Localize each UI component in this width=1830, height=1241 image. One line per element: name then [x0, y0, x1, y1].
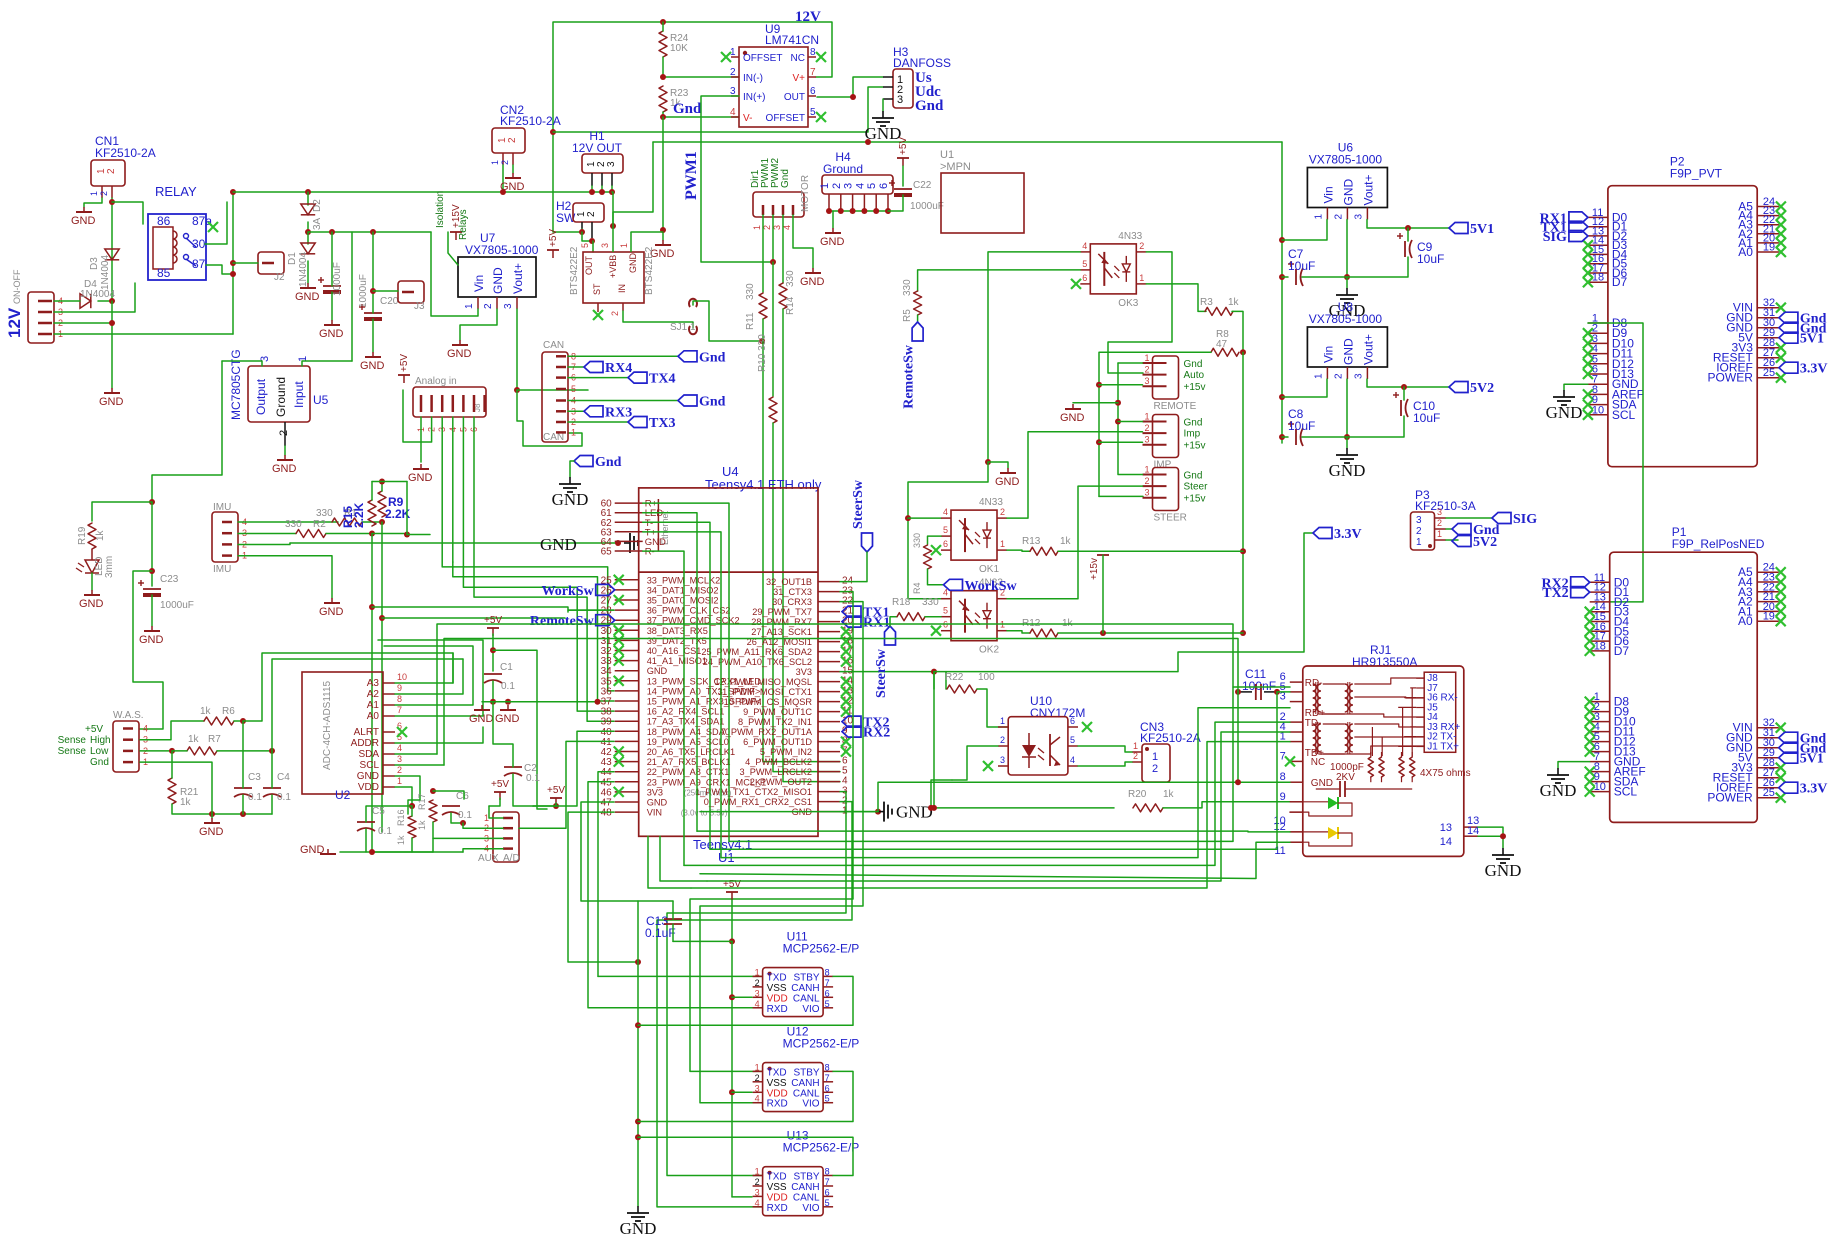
- wire row45 crx1: [588, 782, 762, 1008]
- wire WAS feed: [133, 571, 163, 729]
- svg-text:2: 2: [99, 191, 109, 196]
- svg-text:SIG: SIG: [1543, 230, 1567, 245]
- svg-text:CANL: CANL: [793, 1088, 820, 1099]
- junction H4 pin2: [838, 208, 844, 214]
- wire OK3 p5: [918, 270, 1081, 291]
- svg-text:1N4004: 1N4004: [100, 255, 111, 290]
- wire R8 left: [1099, 352, 1211, 496]
- svg-text:GND: GND: [1341, 179, 1355, 206]
- svg-text:7: 7: [810, 67, 816, 78]
- svg-text:OFFSET: OFFSET: [766, 113, 805, 124]
- capacitor C5 0.1: [357, 806, 392, 837]
- svg-text:R10 330: R10 330: [757, 334, 768, 372]
- svg-text:3mm: 3mm: [104, 556, 115, 578]
- wire OUT stub up: [592, 241, 594, 252]
- wire U5 input up: [302, 361, 352, 366]
- svg-text:KF2510-2A: KF2510-2A: [500, 114, 561, 128]
- svg-text:10uF: 10uF: [1288, 419, 1315, 433]
- junction R12 node: [1240, 630, 1246, 636]
- svg-text:RXD: RXD: [767, 1203, 788, 1214]
- wire CAN p3: [568, 410, 584, 412]
- svg-text:10K: 10K: [670, 43, 688, 54]
- svg-text:4: 4: [755, 1094, 760, 1104]
- wire u10 p2: [952, 746, 998, 780]
- junction C7 left: [1279, 274, 1285, 280]
- svg-text:1: 1: [490, 160, 500, 165]
- wire u11 vdd: [732, 996, 752, 998]
- ground earth U8: [1329, 448, 1366, 480]
- wire U5 output up: [222, 361, 262, 366]
- net label PWM1: [683, 151, 700, 200]
- net flag Gnd P2b: [1779, 322, 1827, 337]
- svg-text:5V1: 5V1: [1800, 752, 1824, 767]
- ground earth P1: [1540, 768, 1577, 800]
- svg-text:Analog in: Analog in: [415, 376, 457, 387]
- svg-text:6_PWM_OUT1D: 6_PWM_OUT1D: [743, 737, 812, 747]
- wire sda vert: [372, 534, 463, 853]
- wire r12 out: [1058, 632, 1243, 634]
- ground earth side teensy: [540, 533, 638, 554]
- svg-text:IN(-): IN(-): [743, 73, 763, 84]
- wire u13 stby: [638, 1137, 853, 1175]
- no-connect X teensy right: [841, 627, 851, 757]
- svg-text:VIN: VIN: [647, 808, 662, 818]
- wire C10 dn: [1347, 416, 1404, 437]
- wire +12raw rail: [308, 231, 431, 233]
- wire u10 p4 cn3: [1078, 762, 1132, 766]
- svg-text:GND: GND: [1485, 861, 1522, 880]
- ground GND below LED: [79, 590, 104, 610]
- wire U6 gnd dn: [1346, 277, 1348, 288]
- wire crx2 u13: [657, 802, 852, 1207]
- capacitor C3 0.1: [234, 772, 262, 803]
- svg-text:3: 3: [1437, 507, 1442, 517]
- wire rail sda long: [407, 534, 430, 536]
- svg-text:2: 2: [730, 67, 736, 78]
- wire relay 87 out: [206, 265, 233, 274]
- svg-text:R6: R6: [222, 706, 235, 717]
- IC BTS422E2 high-side switch: [569, 226, 655, 316]
- svg-text:1000uF: 1000uF: [910, 201, 944, 212]
- svg-text:GND: GND: [491, 267, 505, 294]
- junction D2 bottom: [305, 229, 311, 235]
- wire u10 p5 cn3: [1078, 746, 1132, 752]
- no-connect X P1 power: [1776, 723, 1786, 803]
- svg-text:AUX: AUX: [478, 853, 499, 864]
- svg-text:A/D: A/D: [503, 853, 520, 864]
- svg-text:Gnd: Gnd: [1184, 359, 1203, 370]
- svg-text:TX4: TX4: [649, 372, 675, 387]
- resistor R7 1k: [187, 734, 221, 755]
- connector IMP: [1143, 412, 1206, 471]
- svg-text:2: 2: [755, 1073, 760, 1083]
- pin rows teensy left: [601, 575, 767, 818]
- ground GND analog: [408, 464, 433, 484]
- svg-text:R14: R14: [785, 296, 796, 315]
- ground GND aux: [300, 844, 336, 856]
- svg-text:A0: A0: [367, 711, 380, 722]
- no-connect X ADC ALRT: [397, 727, 407, 737]
- wire U6 vout: [1367, 220, 1449, 229]
- svg-text:10uF: 10uF: [1417, 252, 1444, 266]
- svg-text:5V1: 5V1: [1470, 222, 1494, 237]
- wire eth LED: [643, 513, 697, 831]
- svg-text:1: 1: [1152, 751, 1158, 763]
- svg-text:1: 1: [1437, 529, 1442, 539]
- svg-text:3: 3: [606, 161, 617, 167]
- svg-text:85: 85: [157, 266, 171, 280]
- svg-text:1: 1: [755, 967, 760, 977]
- svg-text:GND: GND: [199, 826, 224, 838]
- wire analog pin3: [442, 417, 614, 691]
- svg-text:Gnd: Gnd: [915, 98, 944, 114]
- power +15V isolation: [450, 204, 462, 240]
- svg-text:2: 2: [586, 211, 597, 217]
- svg-text:RemoteSw: RemoteSw: [530, 614, 595, 629]
- wire 3v3 down: [933, 672, 935, 689]
- wire P2 gnd: [1564, 384, 1588, 390]
- svg-text:U5: U5: [313, 393, 329, 407]
- svg-text:GND: GND: [300, 844, 325, 856]
- wire row40: [533, 731, 614, 806]
- wire bund b: [660, 836, 707, 881]
- svg-text:1: 1: [1133, 741, 1138, 751]
- wire H4 to GND: [832, 211, 834, 228]
- connector REMOTE: [1143, 353, 1206, 412]
- svg-text:GND: GND: [896, 803, 933, 822]
- junction U8 vin: [1279, 394, 1285, 400]
- svg-text:8: 8: [1280, 771, 1286, 783]
- wire isolation link: [448, 232, 458, 265]
- svg-text:GND: GND: [552, 490, 589, 509]
- pin rows P1 D0-D7: [1590, 572, 1630, 658]
- svg-text:+15v: +15v: [1184, 494, 1206, 505]
- wire rd rail2: [444, 639, 1238, 766]
- svg-text:R16: R16: [396, 809, 406, 826]
- net flag RemoteSw teensy: [530, 614, 615, 629]
- pin rows P1 A5-A0: [1738, 562, 1786, 629]
- svg-text:8: 8: [825, 1167, 830, 1177]
- svg-text:+15v: +15v: [1089, 558, 1100, 580]
- wire gnd stub: [211, 814, 213, 818]
- svg-text:1: 1: [755, 1167, 760, 1177]
- wire 12V pin4 to D4: [54, 300, 80, 302]
- svg-text:A3: A3: [367, 678, 380, 689]
- wire CN2 pin1 to rail: [502, 165, 504, 192]
- capacitor C22 1000uF: [889, 180, 944, 212]
- junction gnd2: [505, 699, 511, 705]
- net flag 3.3V main: [1313, 527, 1362, 542]
- no-connect X teensy left: [614, 575, 624, 797]
- svg-text:NC: NC: [791, 53, 805, 64]
- wire CAN pin5 wire: [517, 389, 588, 391]
- svg-text:Teensy4.1 ETH only: Teensy4.1 ETH only: [705, 477, 822, 492]
- wire bundle r5: [684, 722, 1290, 865]
- LED 3mm: [76, 549, 115, 578]
- wire 12V pin2: [54, 322, 112, 324]
- svg-text:MCP2562-E/P: MCP2562-E/P: [783, 1037, 860, 1051]
- junction u11 stby: [635, 1022, 641, 1028]
- junction R16 top: [409, 803, 415, 809]
- svg-text:7: 7: [825, 1177, 830, 1187]
- wire r20 out: [1163, 802, 1290, 808]
- label Isolation: [435, 191, 446, 228]
- LED green RJ1: [1290, 797, 1352, 816]
- svg-text:GND: GND: [272, 463, 297, 475]
- diode D4 1N4004: [80, 279, 115, 308]
- svg-text:VIO: VIO: [802, 1203, 819, 1214]
- svg-text:RXD: RXD: [767, 1099, 788, 1110]
- relay RELAY: [148, 184, 212, 280]
- wire gnd vertical: [1118, 363, 1143, 475]
- wire rail to C20: [372, 232, 374, 313]
- svg-text:SCL: SCL: [1612, 408, 1636, 422]
- svg-text:Output: Output: [254, 378, 268, 415]
- capacitor C23 1000uF: [138, 574, 194, 611]
- ground earth P2: [1546, 390, 1583, 422]
- net flag 5V2 U8: [1449, 381, 1494, 396]
- wire steer p3: [1099, 495, 1143, 497]
- svg-text:+15v: +15v: [1184, 382, 1206, 393]
- ground GND below D1: [295, 283, 320, 303]
- pin stubs RJ1 left: [1274, 671, 1303, 857]
- svg-text:1000uF: 1000uF: [358, 274, 369, 308]
- wire crx3 u12: [700, 602, 863, 1103]
- svg-text:2: 2: [483, 303, 494, 309]
- wire r18 ok2: [925, 616, 941, 618]
- svg-text:C23: C23: [160, 574, 179, 585]
- connector IMU: [212, 502, 247, 575]
- wire H1 p2 drop: [601, 186, 603, 192]
- svg-text:17_A3_TX4_SDA1: 17_A3_TX4_SDA1: [647, 717, 725, 727]
- pin rows P1 D8-SCL: [1585, 691, 1646, 799]
- svg-text:41_A1_MISO1: 41_A1_MISO1: [647, 656, 707, 666]
- ground GND at CN1: [71, 207, 96, 227]
- svg-text:1: 1: [752, 225, 762, 230]
- junction CN1 pin2: [109, 199, 115, 205]
- wire aux p3: [433, 837, 503, 839]
- wire ctx2 u13: [667, 792, 846, 1176]
- wire U8 gnd: [1346, 379, 1348, 437]
- svg-text:3.3V: 3.3V: [1800, 362, 1828, 377]
- wire C8 right: [1302, 436, 1347, 438]
- wire D2 to node: [307, 222, 309, 232]
- resistor R19 1k: [77, 523, 106, 549]
- wire C23 gnd: [151, 595, 153, 626]
- svg-text:2.2K: 2.2K: [352, 502, 366, 528]
- wire SDA row: [395, 753, 437, 755]
- wire C7 right: [1302, 276, 1347, 278]
- svg-text:A2: A2: [367, 689, 380, 700]
- junction ok1 p4: [905, 515, 911, 521]
- wire R2 to R15: [326, 533, 372, 535]
- junction rj1 gnd: [1500, 833, 1506, 839]
- svg-text:0.1: 0.1: [277, 792, 291, 803]
- svg-text:7_PWM_RX2_OUT1A: 7_PWM_RX2_OUT1A: [721, 727, 813, 737]
- junction H4 pin3: [850, 208, 856, 214]
- svg-text:D2: D2: [312, 199, 323, 212]
- svg-text:C3: C3: [248, 772, 261, 783]
- wire MotGnd down: [793, 215, 813, 268]
- svg-text:R20: R20: [1128, 789, 1147, 800]
- wire A2 up: [395, 659, 463, 694]
- ground GND motor: [800, 268, 825, 288]
- net label Gnd at U9: [673, 101, 702, 117]
- wire CN1 pin2 down: [111, 198, 113, 301]
- svg-text:2: 2: [1000, 735, 1005, 745]
- svg-text:2: 2: [278, 430, 290, 436]
- wire H2 short: [582, 232, 592, 241]
- LED yellow RJ1: [1290, 827, 1352, 846]
- svg-text:38_DAT3_RX5: 38_DAT3_RX5: [647, 626, 708, 636]
- wire sda rail: [372, 607, 614, 610]
- regulator U6 VX7805-1000: [1307, 141, 1387, 220]
- junction H4 pin1: [826, 208, 832, 214]
- wire gnd vert remote: [1118, 362, 1143, 364]
- junction c11 l: [1235, 689, 1241, 695]
- svg-text:3: 3: [503, 303, 514, 309]
- net flag Gnd mid: [574, 455, 622, 470]
- net flag SteerSw opto: [874, 626, 896, 698]
- resistor R15 2.2K: [341, 500, 376, 528]
- svg-text:6: 6: [825, 1083, 830, 1093]
- svg-text:11_PWM_MOSI_CTX1: 11_PWM_MOSI_CTX1: [718, 687, 812, 697]
- junction OUT-Us: [850, 94, 856, 100]
- svg-text:W.A.S.: W.A.S.: [113, 710, 144, 721]
- wire analog pin6: [474, 417, 614, 721]
- connector J2: [258, 252, 285, 283]
- junction D2 top: [305, 189, 311, 195]
- svg-text:GND: GND: [495, 713, 520, 725]
- svg-text:>MPN: >MPN: [940, 161, 971, 173]
- connector block J1-J8: [1416, 672, 1460, 752]
- svg-text:RemoteSw: RemoteSw: [902, 344, 917, 409]
- junction C4 top: [269, 748, 275, 754]
- junction c5gnd: [369, 849, 375, 855]
- wire U8 gnd dn: [1346, 437, 1348, 448]
- svg-text:6: 6: [825, 1187, 830, 1197]
- svg-text:39_DAT2_TX5: 39_DAT2_TX5: [647, 636, 707, 646]
- svg-text:TXD: TXD: [767, 1172, 787, 1183]
- svg-text:RX4: RX4: [605, 361, 632, 376]
- svg-text:8: 8: [397, 694, 402, 704]
- svg-text:Gnd: Gnd: [1184, 418, 1203, 429]
- junction H4 pin4: [861, 208, 867, 214]
- IC U4 Teensy4.1: [639, 464, 822, 865]
- wire R21 top: [171, 751, 173, 778]
- wire WAS p1 gnd: [140, 762, 212, 814]
- svg-text:Ground: Ground: [823, 162, 863, 176]
- wire teensy gnd: [840, 811, 878, 813]
- ground GND c1a: [469, 705, 494, 725]
- svg-text:OFFSET: OFFSET: [743, 53, 782, 64]
- svg-text:2: 2: [1000, 507, 1005, 517]
- wire WAS p3: [140, 721, 204, 740]
- svg-text:6: 6: [878, 183, 890, 189]
- svg-text:3: 3: [1353, 214, 1364, 220]
- wire 12V pin1 long: [54, 333, 233, 335]
- svg-text:D1: D1: [287, 252, 298, 265]
- svg-text:WorkSw: WorkSw: [542, 584, 595, 599]
- svg-text:13: 13: [1440, 822, 1452, 834]
- wire analog pin1 gnd: [420, 417, 422, 462]
- svg-text:3: 3: [755, 1083, 760, 1093]
- wire gnd sym link: [1073, 402, 1118, 404]
- no-connect X U9 pin8: [816, 52, 826, 62]
- wire C22 to gnd rail: [888, 195, 903, 211]
- connector 12V ON-OFF: [5, 269, 63, 343]
- svg-text:TXD: TXD: [767, 1067, 787, 1078]
- svg-text:OK2: OK2: [979, 645, 999, 656]
- svg-text:PWM1: PWM1: [683, 151, 700, 200]
- svg-text:GND: GND: [139, 634, 164, 646]
- svg-text:Relays: Relays: [458, 209, 469, 240]
- svg-text:TX3: TX3: [649, 416, 675, 431]
- connector J8 Analog in: [413, 376, 486, 432]
- junction gnd rem: [1115, 400, 1121, 406]
- svg-text:8: 8: [810, 47, 816, 58]
- svg-text:STBY: STBY: [793, 972, 819, 983]
- svg-text:30_CRX3: 30_CRX3: [772, 597, 812, 607]
- wire CAN p8: [568, 355, 678, 357]
- wire R6 out: [234, 720, 243, 722]
- wire A1 up: [384, 646, 473, 705]
- junction c11 r: [1274, 689, 1280, 695]
- wire remote p3: [1099, 384, 1143, 386]
- svg-text:V+: V+: [792, 73, 805, 84]
- wire ok1 p2 imp: [1007, 432, 1143, 518]
- svg-text:Gnd: Gnd: [90, 757, 109, 768]
- svg-text:Gnd: Gnd: [1184, 471, 1203, 482]
- connector H2 SW: [556, 199, 604, 238]
- svg-text:GND: GND: [360, 360, 385, 372]
- svg-text:29_PWM_TX7: 29_PWM_TX7: [752, 607, 812, 617]
- resistor R20 1k: [1128, 789, 1175, 812]
- svg-text:7: 7: [825, 978, 830, 988]
- resistor R22 100: [945, 672, 995, 693]
- net flag RemoteSw vert: [902, 322, 924, 409]
- svg-text:Sense: Sense: [58, 746, 87, 757]
- no-connect X U10 p3: [983, 761, 993, 771]
- wire c2 5v link: [533, 805, 556, 807]
- wire PWM1 down3: [773, 423, 840, 772]
- wire rail142 drop: [613, 142, 653, 226]
- wire gnd ext: [700, 811, 878, 813]
- wire c13 cap bottom: [672, 924, 674, 941]
- svg-text:NC: NC: [1311, 757, 1325, 768]
- wire SJ to dir: [693, 301, 762, 341]
- capacitor C2 0.1: [504, 763, 540, 784]
- svg-text:1: 1: [1000, 539, 1005, 549]
- svg-text:+5V: +5V: [898, 137, 909, 155]
- junction H1 p3: [609, 189, 615, 195]
- svg-text:3: 3: [843, 183, 855, 189]
- wire c13 gnd: [638, 900, 673, 902]
- IC U11 MCP2562: [753, 930, 860, 1017]
- svg-text:VSS: VSS: [767, 1182, 787, 1193]
- svg-text:18: 18: [1594, 640, 1606, 652]
- svg-text:1k: 1k: [1228, 297, 1240, 308]
- svg-text:GND: GND: [628, 253, 638, 274]
- wire R9 top: [381, 482, 383, 492]
- svg-text:ON-OFF: ON-OFF: [12, 269, 22, 304]
- svg-text:GND: GND: [1341, 338, 1355, 365]
- svg-text:2: 2: [1437, 518, 1442, 528]
- wire node to D1: [307, 232, 309, 244]
- svg-text:R5: R5: [902, 309, 913, 322]
- svg-text:1k: 1k: [180, 797, 192, 808]
- svg-text:87a: 87a: [192, 214, 212, 228]
